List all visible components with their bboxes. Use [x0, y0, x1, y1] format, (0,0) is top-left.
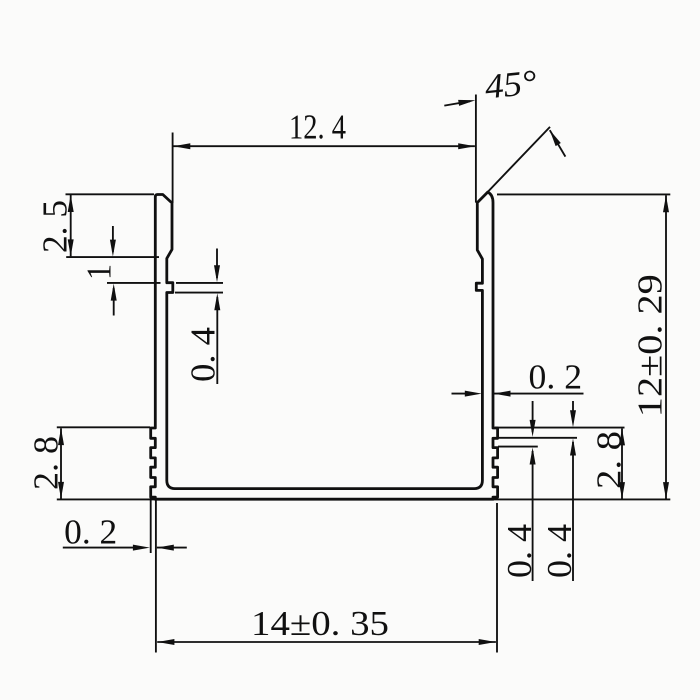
dimension 0.2 (right wall): [452, 393, 584, 395]
svg-text:45°: 45°: [483, 62, 539, 106]
svg-text:2. 8: 2. 8: [590, 431, 629, 489]
svg-text:2. 8: 2. 8: [27, 436, 66, 490]
45 degree chamfer callout: [444, 101, 565, 156]
svg-text:12±0. 29: 12±0. 29: [631, 274, 670, 417]
dimension 0.2 (bottom left): [63, 498, 187, 653]
dimension 0.4 (second, bottom right): [572, 401, 574, 581]
profile outline (U-channel cross-section): [151, 192, 498, 499]
svg-text:0. 2: 0. 2: [529, 358, 583, 397]
svg-text:0. 4: 0. 4: [500, 524, 539, 578]
dimension 2.8 (right serration): [621, 429, 623, 499]
svg-text:2. 5: 2. 5: [36, 200, 75, 253]
svg-text:0. 4: 0. 4: [540, 524, 579, 578]
svg-text:14±0. 35: 14±0. 35: [251, 604, 389, 643]
dimension 2.5 (left top): [66, 194, 160, 257]
dimension 0.4 (left rib): [175, 249, 223, 385]
dimension 12.4: [173, 95, 476, 204]
dimension 2.8 (left serration): [57, 427, 150, 498]
svg-text:1: 1: [80, 264, 119, 280]
dimension 12±0.29 (right): [497, 194, 670, 499]
svg-text:12. 4: 12. 4: [289, 107, 346, 146]
dimension 14±0.35 (bottom): [157, 503, 497, 653]
serration step extension lines (right): [495, 428, 625, 447]
dimension 0.4 (first, bottom right): [532, 401, 534, 581]
bottom reference line: [57, 498, 671, 500]
svg-text:0. 2: 0. 2: [64, 513, 117, 552]
svg-text:0. 4: 0. 4: [184, 327, 223, 382]
dimension 1 (left wall step): [107, 226, 161, 316]
